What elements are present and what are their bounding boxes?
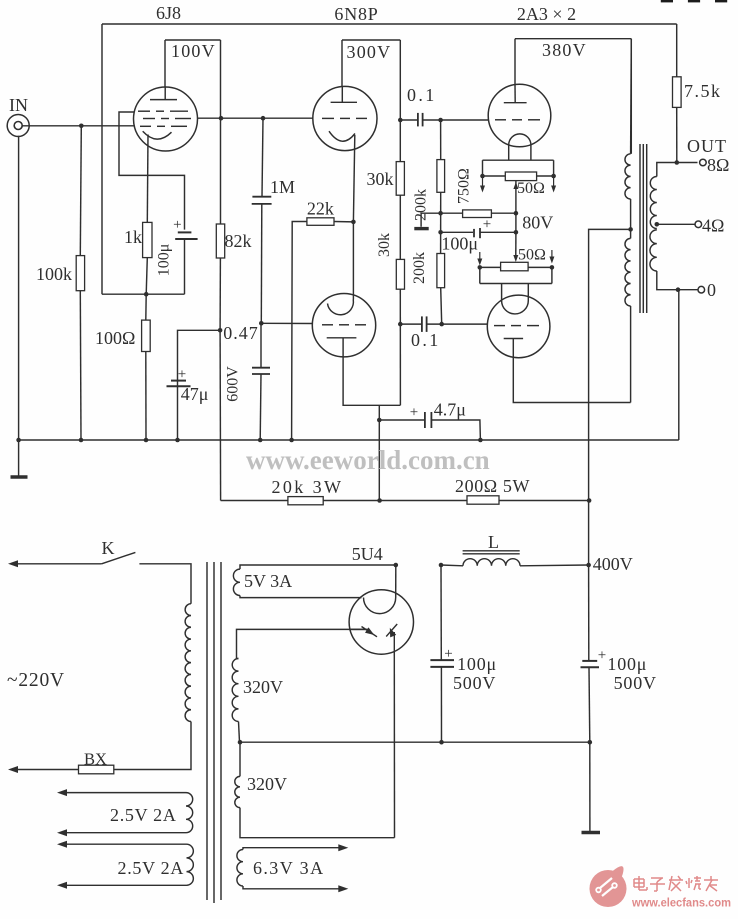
capacitor 100u filter1 [430,660,454,667]
capacitor 100u filter2 [581,661,600,667]
label + of 47u [178,367,186,383]
arrow hum lower left [477,252,482,266]
switch K blade [102,552,136,563]
svg-text:L: L [488,532,499,552]
tube V1 cathode [143,131,172,139]
wire CT rail [240,741,590,743]
wire 1M bottom [260,204,263,323]
label 400V [593,554,633,574]
label 100R [95,328,135,348]
wire 0 tap [657,271,698,290]
node V3 pot ends [480,174,556,179]
terminal 4R [695,221,702,228]
wire OPT primary bottom lead [630,306,632,403]
wire 4R tap [657,223,696,225]
label 100u [156,244,173,277]
label 500V filter2 [614,673,657,693]
svg-text:+: + [483,217,491,233]
wire switch to PT [139,564,191,604]
node wiper junction 80V [514,211,519,216]
wire top NFB rail [102,23,677,25]
svg-text:30k: 30k [367,169,394,189]
resistor 750R [463,210,492,218]
wire 320V1 top lead [237,629,370,658]
label OUT [687,136,727,156]
capacitor 100u bias plates [474,228,480,238]
node 4R tap [655,222,660,227]
node PT center tap [238,740,243,745]
wire upper wiper [513,181,518,214]
resistor 82k [216,224,224,258]
label 6N8P [334,4,378,24]
wire 5U4 filament drop [395,565,397,598]
wire V1 cathode lead [146,135,149,223]
transformer OPT core [640,144,647,313]
label 380V [542,40,587,60]
ground left [11,438,28,477]
wire 600V cap leads [259,323,262,440]
svg-text:100V: 100V [171,41,216,61]
wire 320V1 bottom [239,722,240,743]
choke L winding [463,559,520,566]
resistor 20k3W [288,497,323,505]
wire 100R bottom [145,352,147,441]
label 5V3A [244,571,292,591]
label 20k3W [272,477,344,497]
wire cathode feed vertical [378,405,380,500]
svg-text:100μ: 100μ [441,234,478,254]
wire IN down to ground rail [18,136,20,440]
label 200R5W [455,476,530,496]
label 600V [225,366,242,402]
wire 4.7u left [379,419,424,421]
wire 7.5k bottom [676,107,678,162]
svg-text:500V: 500V [614,673,657,693]
wire 0.1 to 2A3b grid [427,323,488,325]
wire 4.7u right [431,420,480,440]
label 750R [456,168,473,204]
resistor 22k [307,218,334,226]
label 7.5k [684,81,722,101]
node 4.7u junction [377,418,382,423]
wire V5 left plate [349,628,366,630]
svg-text:200Ω 5W: 200Ω 5W [455,476,530,496]
resistor 200k lower [437,254,445,288]
tube V1 6J8 envelope [134,87,198,151]
label 50R lower [518,247,546,264]
label 500V filter1 [453,673,496,693]
resistor 30k lower [396,259,404,289]
node plate-flag junction [219,116,224,121]
svg-text:30k: 30k [376,233,393,257]
wire 1M top [262,118,263,196]
wire 47u top [178,330,221,440]
svg-text:2A3 × 2: 2A3 × 2 [517,4,576,24]
svg-text:0.47: 0.47 [223,323,258,343]
svg-text:+: + [410,405,418,421]
node dropper right [587,498,592,503]
svg-text:750Ω: 750Ω [456,168,473,204]
wire 100u left [441,231,473,233]
tube V2a plate [331,87,357,103]
label + of 100u [173,217,181,233]
tube V2b plate [327,337,357,339]
node filter cap2 bottom [588,740,593,745]
svg-text:100μ: 100μ [607,654,647,674]
wire V4 plate lead [513,339,630,403]
label 100V [171,41,216,61]
fuse BX [79,765,114,774]
tube V2b 6N8P envelope [312,294,375,357]
node cap1 top [439,563,444,568]
svg-text:5V 3A: 5V 3A [244,571,292,591]
svg-text:47μ: 47μ [181,384,209,404]
wire PT primary bottom [114,722,191,770]
svg-text:400V: 400V [593,554,633,574]
wire 2.5V-2 top [57,841,187,848]
resistor 100k [76,256,84,291]
transformer OPT primary bottom [625,238,631,306]
svg-text:100k: 100k [36,264,72,284]
svg-text:K: K [102,538,115,558]
transformer 320V winding 1 [232,659,238,722]
transformer PT core [207,562,221,903]
wire V2a cathode to V2b [352,222,354,299]
label + of filter2 [598,648,606,664]
wire 100k top lead [80,126,81,256]
tube V1 grid dashes [138,111,191,126]
svg-text:22k: 22k [307,199,334,219]
wire filter2 to ground [589,742,591,831]
label + of 4.7u [410,405,418,421]
choke L core [463,551,520,554]
potentiometer 50R upper [505,172,536,181]
node 200k upper junction [438,118,443,123]
svg-text:50Ω: 50Ω [517,180,545,197]
tube V3 filament loop [509,134,531,160]
wire V4 skirt [480,267,552,283]
tube V2a 6N8P envelope [313,86,377,150]
svg-text:8Ω: 8Ω [707,155,729,175]
wire divider to V2b grid [261,322,313,324]
tube V1 plate [150,87,177,100]
capacitor 0.1 upper plates [418,113,423,127]
node 100V flag [165,40,221,224]
node cathode net [144,292,149,297]
wire 8R tap [657,163,698,177]
svg-text:+: + [173,217,181,233]
svg-text:+: + [178,367,186,383]
wire V1 g3 hook [119,112,185,230]
label 22k [307,199,334,219]
svg-text:600V: 600V [225,366,242,402]
node filter cap1 bottom [439,740,444,745]
resistor 1k [143,222,152,257]
svg-text:BX: BX [84,750,107,769]
label + of bias 100u [483,217,491,233]
transformer OPT primary top [625,154,631,199]
wire 5V bottom lead [240,596,362,598]
label 1M [270,177,295,197]
svg-text:2.5V 2A: 2.5V 2A [110,805,177,825]
label 100u filter2 [607,654,647,674]
wire 6.3V top [243,844,348,851]
wire B+ vertical [589,501,590,743]
node 100u right junction [514,230,519,235]
svg-text:2.5V 2A: 2.5V 2A [118,858,185,878]
node 400V [586,563,591,568]
ground bottom right [582,831,601,835]
svg-text:82k: 82k [225,231,252,251]
capacitor 100u plates [175,232,197,239]
svg-text:0: 0 [707,280,716,300]
label L [488,532,499,552]
wire 82k bottom to B node [219,258,221,330]
svg-text:www.elecfans.com: www.elecfans.com [631,898,731,910]
svg-text:OUT: OUT [687,136,727,156]
label 47u [181,384,209,404]
wire 7.5k top [676,24,678,77]
svg-text:50Ω: 50Ω [518,247,546,264]
wire cathode net horizontal [102,293,185,295]
wire plate to 0.1 [400,119,417,121]
wire 22k left lead [292,222,307,441]
label 300V [347,42,392,62]
node divider junction [259,321,264,326]
label 4.7u [434,400,466,420]
label 50R upper [517,180,545,197]
svg-text:100μ: 100μ [156,244,173,277]
tube V5 filament arc [364,598,396,614]
node rail junctions [79,438,483,443]
wire NFB left drop [101,24,103,294]
wire 6.3V bottom [243,885,348,892]
svg-text:100Ω: 100Ω [95,328,135,348]
transformer 5V winding [233,569,240,595]
wire OPT top feed [630,39,633,154]
label 0 [707,280,716,300]
watermark eeworld [246,445,490,475]
tube V4 plate [504,338,523,340]
wire V2b plate lead [343,338,400,406]
wire choke left [441,564,463,567]
wire 0.1 to 2A3 grid [423,119,489,121]
svg-text:1M: 1M [270,177,295,197]
wire 200k mid [440,192,442,253]
svg-text:6.3V 3A: 6.3V 3A [253,858,324,878]
svg-text:320V: 320V [247,774,287,794]
wire 100u bottom [184,239,186,294]
wire 2.5V-2 bottom [57,882,187,889]
watermark elecfans logo [590,866,627,907]
transformer OPT secondary bottom [650,230,657,271]
capacitor 0.1 lower plates [422,316,427,332]
svg-text:1k: 1k [124,227,142,247]
resistor 7.5k [673,77,682,108]
wire 0 to ground rail [678,290,680,440]
arrow hum lower right [549,250,554,264]
wire 320V1 stub fix [237,658,239,660]
svg-text:~220V: ~220V [7,670,65,691]
tube V2a grid dashes [322,117,367,119]
wire V2a cathode lead [353,135,354,222]
svg-text:80V: 80V [522,213,553,233]
terminal 8R [700,159,707,166]
label 30k lower [376,233,393,257]
transformer PT primary [185,604,191,722]
svg-text:7.5k: 7.5k [684,81,722,101]
wire 750R leads [441,212,516,214]
node 100u left junction [438,230,443,235]
tube V3 plate [504,102,527,104]
svg-text:IN: IN [9,95,28,115]
node lower 0.1 tap [398,322,403,327]
node 5U4 filament junction [394,563,399,568]
svg-text:100μ: 100μ [457,654,497,674]
svg-text:4.7μ: 4.7μ [434,400,466,420]
arrow hum upper right [551,176,556,193]
tube V5 left plate arrow [362,627,378,637]
wire 2.5V-1 bottom [57,829,186,836]
tube V3 2A3 envelope [488,84,551,147]
label 6.3V3A [253,858,324,878]
label IN [9,95,28,115]
svg-text:www.eeworld.com.cn: www.eeworld.com.cn [246,445,490,475]
label 320V 2 [247,774,287,794]
svg-text:20k 3W: 20k 3W [272,477,344,497]
node 380V flag [515,39,631,154]
resistor 200k upper [437,160,445,193]
capacitor 47u plates [167,381,191,387]
wire 200k lower bottom [441,288,442,324]
page-edge scan marks (decorative? keep as drawn) [661,0,727,2]
node 0 junction [676,287,681,292]
wire BX to arrow [8,766,79,773]
node 300V flag [342,40,400,120]
svg-text:+: + [444,646,452,662]
wire wiper vertical [515,213,517,258]
wire 30k tap to 0.1 [400,323,421,325]
label 80V [522,213,553,233]
label + of filter1 [444,646,452,662]
label 220V [7,670,65,691]
terminal IN [7,115,29,137]
node 200k lower junction [439,322,444,327]
node input junction [79,124,84,129]
wire B node down to dropper line [219,330,222,500]
label 0.47 [223,323,258,343]
svg-text:0.1: 0.1 [407,85,437,105]
tube V4 2A3 envelope [487,295,550,358]
wire 22k right lead [334,221,353,223]
wire 5V top lead [240,565,396,569]
node 30k top junction [398,118,403,123]
label 200k lower [411,252,428,284]
svg-text:4Ω: 4Ω [702,216,724,236]
arrow hum upper left [480,176,485,193]
wire dropper line [221,500,589,502]
wire V3 pot leads [483,175,554,177]
tube V2b grid dashes [322,324,366,326]
label 5U4 [352,544,383,564]
wire OPT primary mid [630,199,632,238]
transformer 320V winding 2 [235,776,240,807]
node OPT center tap [628,227,633,232]
tube V2b top curl [328,299,354,315]
capacitor 0.47 600V plates [252,368,270,374]
wire V5 plate2 drop [393,652,395,838]
watermark elecfans url [631,898,731,910]
transformer 2.5V winding 1 [186,793,193,833]
svg-text:380V: 380V [542,40,587,60]
potentiometer 50R lower [501,262,528,271]
wire 320V2 bottom lead [240,808,395,838]
label K [102,538,115,558]
svg-text:320V: 320V [243,677,283,697]
wire OPT CT to B+ [589,229,631,500]
transformer OPT secondary top [650,177,656,229]
svg-text:5U4: 5U4 [352,544,383,564]
wire cap1 vertical [440,565,443,742]
wire V3 skirt [483,160,554,176]
tube V3 grid dashes [495,119,540,121]
wire 2.5V-1 top [57,789,186,796]
svg-text:500V: 500V [453,673,496,693]
label 6J8 [156,3,181,23]
tube V5 5U4 envelope [349,590,413,654]
watermark elecfans CJK text [634,876,718,891]
wire 100k bottom lead [79,291,82,440]
label 320V 1 [243,677,283,697]
label 100u bias [441,234,478,254]
node 22k junction [351,220,356,225]
node dropper mid [377,498,382,503]
tube V4 filament loop [502,284,529,314]
label 0.1 lower [411,330,441,350]
wire IN to grid [22,125,134,127]
tube V2a cathode [329,131,355,141]
svg-text:6N8P: 6N8P [334,4,378,24]
wire 320V2 top stub [239,742,241,776]
wire 1k bottom [146,258,147,295]
resistor 100R [142,320,151,351]
transformer 6.3V winding [237,850,243,887]
label 2.5V 2A #1 [110,805,177,825]
label 8R [707,155,729,175]
wire 100R top [145,294,147,320]
node V4 pot ends [478,265,555,270]
svg-text:300V: 300V [347,42,392,62]
node 1M tap [261,116,266,121]
wire 30k chain bottom [399,289,401,405]
resistor 30k upper [396,162,404,196]
resistor 200R5W [467,496,499,504]
wire 30k chain [399,120,401,259]
label 82k [225,231,252,251]
tube V5 right plate arrow [386,624,397,652]
label 0.1 upper [407,85,437,105]
node 47u/82k junction [218,328,223,333]
tube V4 grid dashes [494,325,539,327]
wire V4 pot leads [480,266,552,268]
label 4R [702,216,724,236]
wire 200k chain top [440,120,442,160]
transformer 2.5V winding 2 [187,844,194,885]
arrow lower wiper [513,250,518,262]
label 1k [124,227,142,247]
component 1M plates [252,197,272,204]
wire main ground rail [19,439,679,441]
